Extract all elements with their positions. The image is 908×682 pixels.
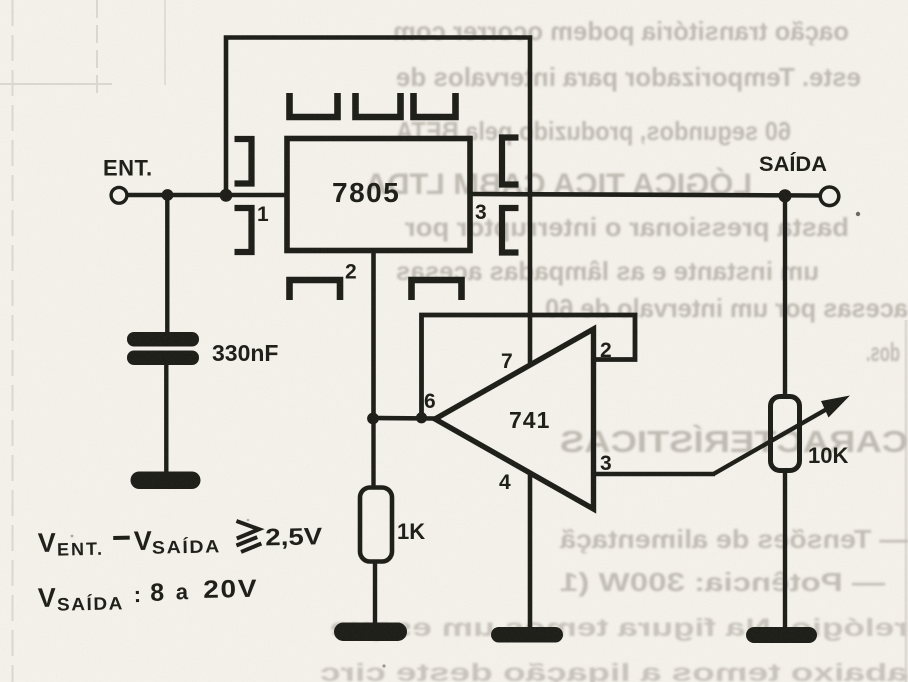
junction dot at output node	[778, 189, 791, 202]
formula: Vent - Vsaida >= 2,5V	[37, 519, 322, 560]
formula: Vsaida : 8 a 20V	[37, 575, 258, 615]
ground under capacitor	[131, 472, 201, 490]
package marks above 7805 (three U shapes)	[290, 93, 456, 117]
package marks right of 7805 (two [ brackets)	[502, 138, 519, 253]
ground under 741	[491, 627, 563, 643]
regulator U1 7805 (body)	[287, 139, 470, 251]
feedback wire: node B up and around to 741 pin 2	[422, 315, 636, 415]
op-amp U2 741 (triangle, pointing left)	[435, 329, 594, 509]
wire: node A to 741 pin 6 (apex)	[373, 416, 437, 421]
ground under R1	[334, 623, 407, 642]
wire: input node down to capacitor	[165, 195, 169, 333]
potentiometer P1 10K (body)	[771, 397, 800, 471]
junction dot node A	[367, 413, 379, 425]
wire: capacitor to ground	[164, 364, 168, 474]
wire: 7805 pin 2 down to node A	[371, 250, 376, 420]
junction dot node B (pin 6)	[416, 412, 427, 423]
ground under potentiometer	[746, 627, 817, 643]
wire: R1 to ground	[373, 561, 377, 626]
junction dot at input node	[162, 189, 174, 201]
junction dot at top-loop tap	[220, 189, 233, 202]
wire: 741 pin 3 out to potentiometer wiper	[594, 472, 715, 477]
package marks below 7805 (two n shapes)	[290, 280, 462, 300]
wire: ENT terminal to 7805 pin 1	[127, 193, 288, 198]
wire: 741 pin 4 to ground	[528, 472, 533, 630]
resistor R1 1K (body)	[360, 488, 392, 562]
wire: node A down to R1	[371, 418, 375, 488]
terminal SAIDA (output)	[820, 187, 839, 206]
potentiometer wiper arrow	[714, 396, 851, 475]
wire: output node down to potentiometer	[783, 196, 787, 398]
wire: 7805 pin 3 to SAIDA terminal	[470, 194, 820, 196]
package marks left of 7805 (two ] brackets)	[235, 139, 252, 252]
wire: top supply loop from input node to 741 pin 7	[226, 38, 530, 364]
capacitor C1 330nF (two plates)	[127, 332, 199, 365]
terminal ENT (input)	[111, 187, 127, 203]
wire: potentiometer to ground	[783, 470, 787, 630]
